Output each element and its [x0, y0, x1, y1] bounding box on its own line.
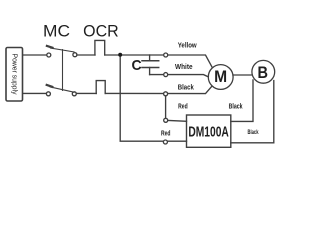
wire motor M to B — [233, 74, 252, 76]
wire top pole from box to MC — [23, 54, 47, 56]
connector terminal black — [164, 92, 168, 96]
contactor MC bottom pole blade tail — [47, 85, 53, 87]
wire black lead OCR to motor — [105, 86, 212, 93]
svg-text:C: C — [132, 57, 142, 74]
contactor MC mechanical linkage — [62, 50, 64, 91]
wire white lead capacitor to motor — [150, 75, 209, 77]
wire node A to DM100A lower red lead — [120, 55, 186, 141]
svg-text:Black: Black — [178, 84, 194, 91]
svg-text:Yellow: Yellow — [178, 42, 197, 49]
svg-text:Red: Red — [161, 131, 171, 138]
overload relay OCR top heater element — [95, 40, 105, 55]
motor M circle — [208, 65, 233, 90]
svg-text:Black: Black — [229, 104, 243, 111]
module DM100A box — [187, 115, 231, 147]
wire OCR to motor yellow lead — [105, 55, 212, 67]
contactor MC top pole left terminal — [47, 53, 51, 57]
contactor MC top pole blade — [51, 48, 75, 52]
capacitor C1 bottom lead — [149, 68, 151, 75]
capacitor C1 top plate — [142, 60, 159, 62]
wire bottom pole from box to MC — [23, 92, 47, 94]
contactor MC bottom pole left terminal — [46, 92, 50, 96]
svg-text:MC: MC — [43, 21, 70, 40]
connector terminal red upper — [164, 118, 168, 122]
wire MC to OCR bottom — [76, 92, 96, 94]
wire B to DM100A lower black output — [231, 81, 274, 143]
svg-text:M: M — [214, 67, 227, 86]
svg-text:Black: Black — [248, 129, 259, 136]
svg-text:DM100A: DM100A — [188, 123, 229, 140]
capacitor C1 top lead — [149, 55, 151, 61]
connector terminal yellow — [164, 53, 168, 57]
connector terminal white — [164, 73, 168, 77]
node A junction dot — [118, 53, 122, 57]
svg-text:B: B — [258, 64, 269, 82]
component B circle — [252, 60, 275, 83]
contactor MC bottom pole right terminal — [72, 92, 76, 96]
wire B to DM100A upper black output — [231, 80, 253, 122]
wire black tap to DM100A upper red lead — [166, 94, 187, 122]
contactor MC top pole right terminal — [73, 53, 77, 57]
power supply box — [6, 48, 23, 102]
svg-text:Red: Red — [178, 103, 188, 110]
overload relay OCR bottom heater element — [96, 81, 105, 94]
contactor MC bottom pole blade — [50, 87, 74, 92]
svg-text:White: White — [175, 64, 193, 71]
connector terminal red lower — [163, 140, 167, 144]
capacitor C1 bottom plate — [142, 67, 159, 69]
wire MC to OCR top — [77, 54, 95, 56]
svg-text:OCR: OCR — [83, 21, 119, 40]
contactor MC top pole blade tail — [47, 46, 53, 48]
svg-text:Power supply: Power supply — [10, 54, 17, 95]
